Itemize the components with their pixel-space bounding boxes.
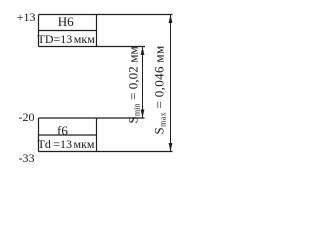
- svg-text:Smax = 0,046 мм: Smax = 0,046 мм: [152, 45, 168, 134]
- svg-text:Smin = 0,02 мм: Smin = 0,02 мм: [126, 46, 142, 123]
